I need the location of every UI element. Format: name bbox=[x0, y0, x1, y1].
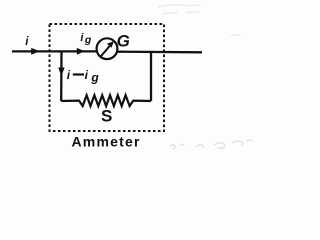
svg-text:G: G bbox=[117, 31, 130, 50]
svg-text:S: S bbox=[101, 107, 112, 126]
svg-text:g: g bbox=[84, 34, 92, 46]
svg-text:Ammeter: Ammeter bbox=[72, 133, 141, 149]
svg-text:g: g bbox=[90, 70, 99, 84]
